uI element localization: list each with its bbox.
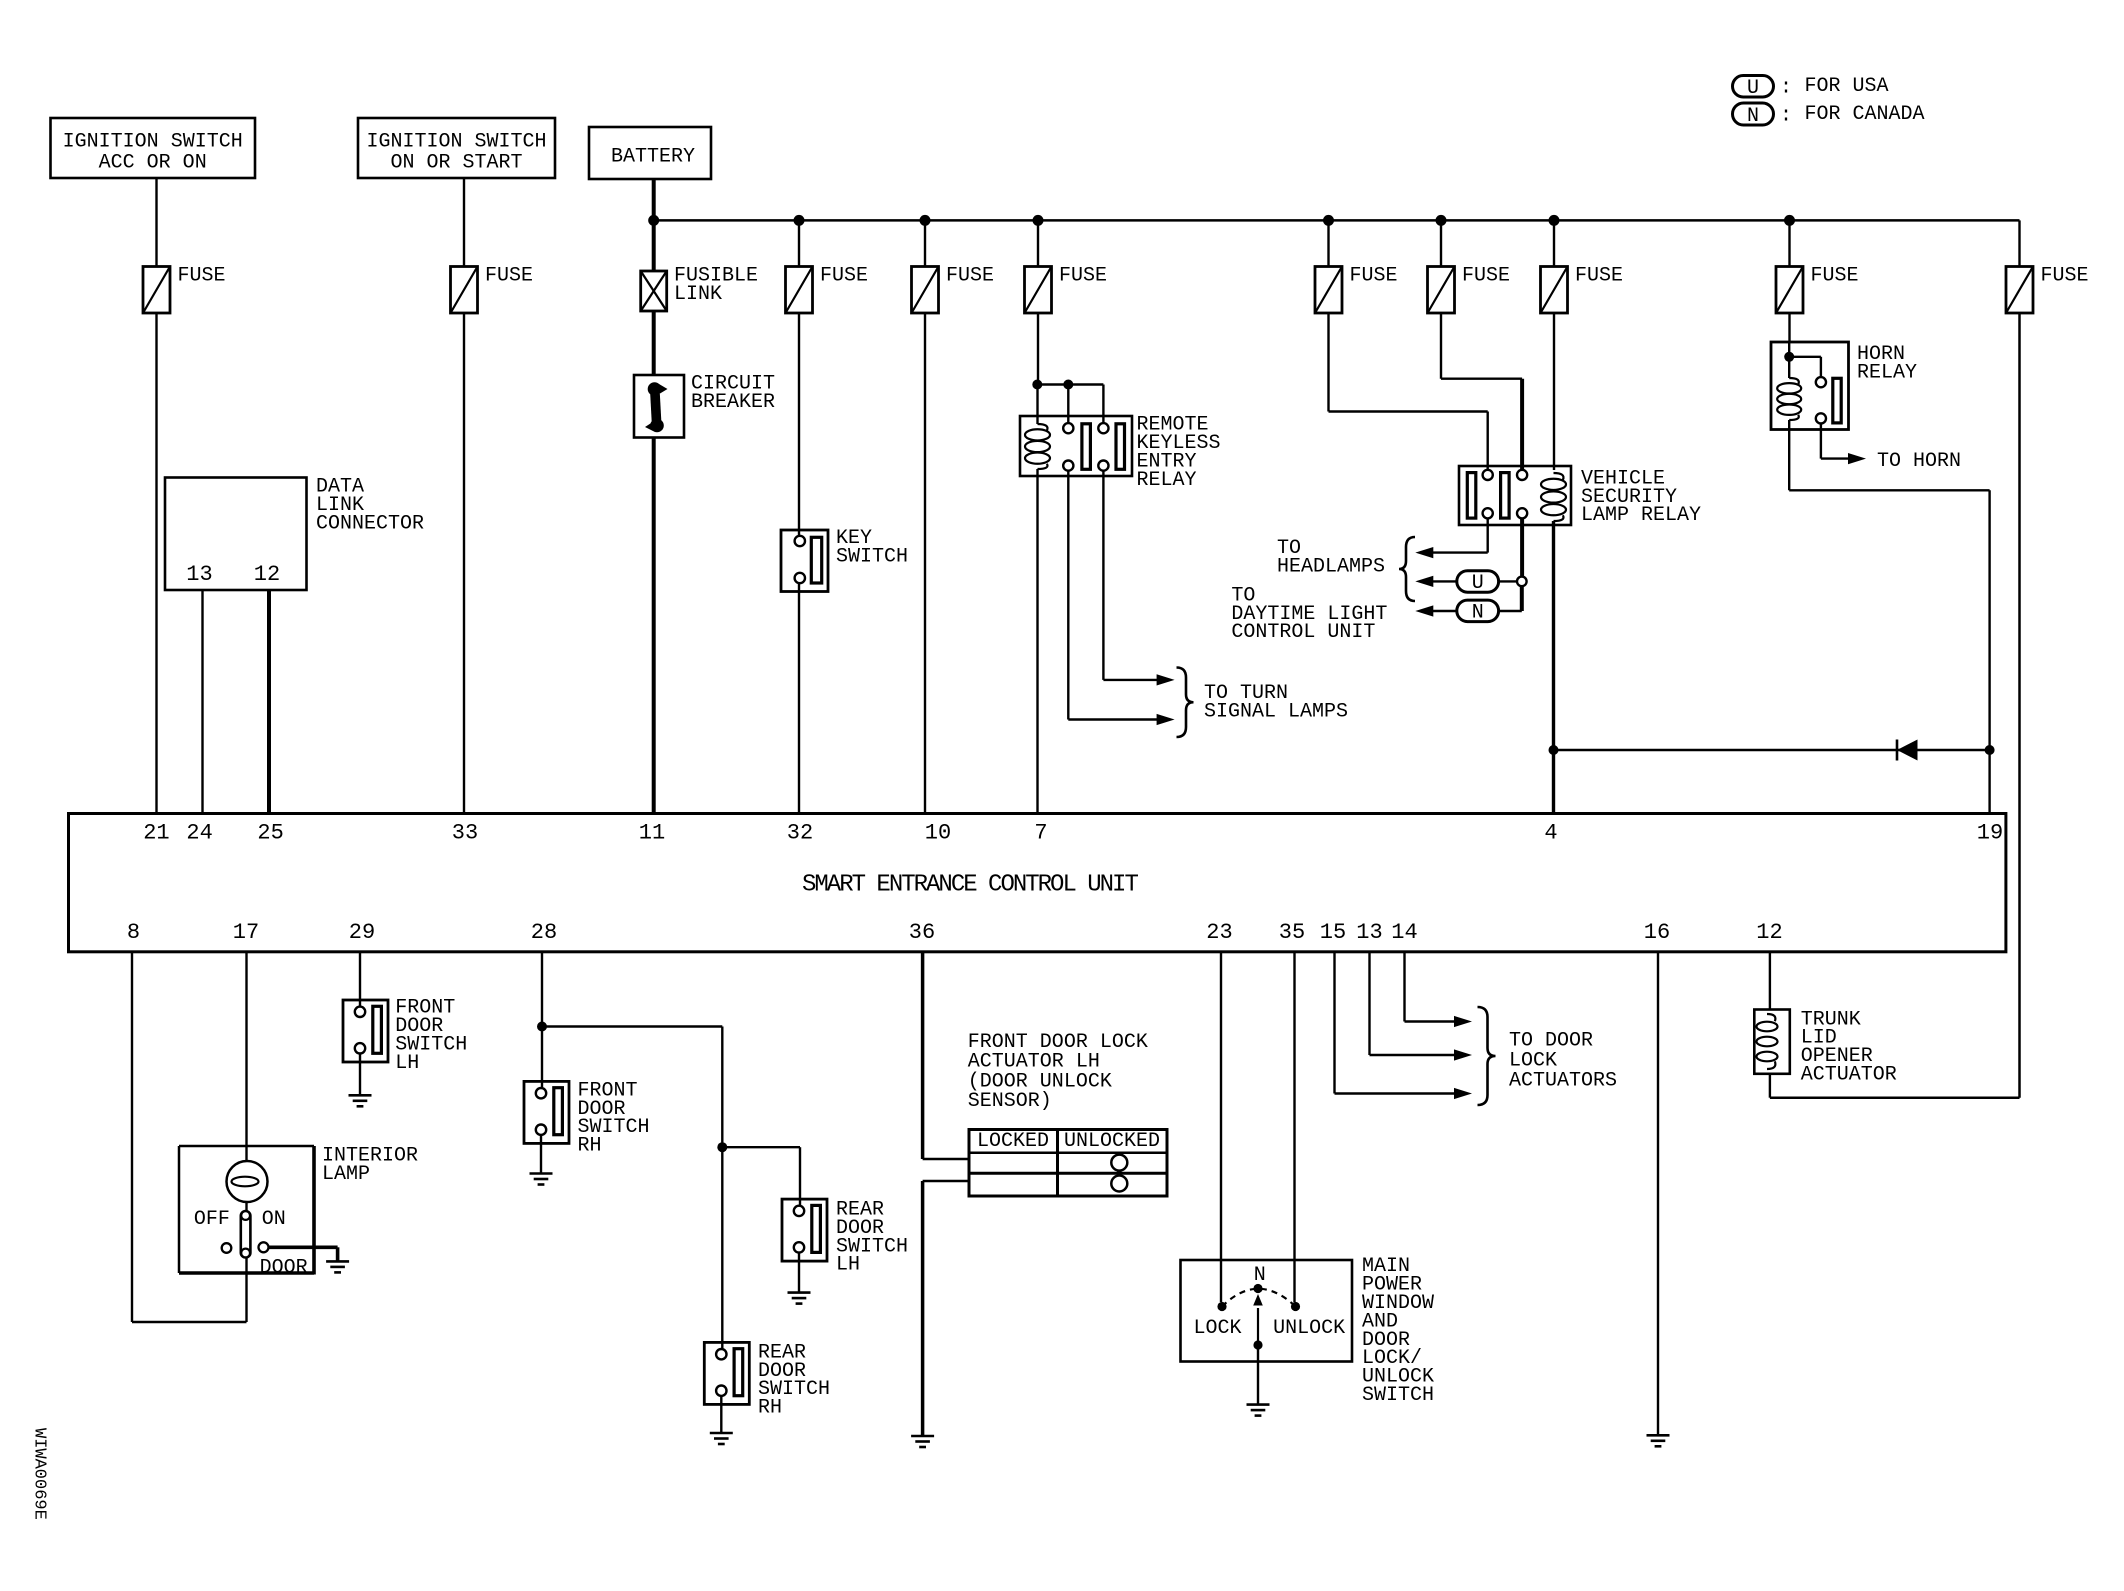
svg-text:4: 4 [1544, 821, 1557, 846]
svg-text:OFF: OFF [194, 1208, 230, 1231]
svg-text:29: 29 [349, 920, 375, 945]
svg-text:CONTROL UNIT: CONTROL UNIT [1231, 621, 1375, 644]
svg-text:BATTERY: BATTERY [611, 146, 695, 169]
svg-text:LAMP RELAY: LAMP RELAY [1581, 504, 1701, 527]
svg-text:SENSOR): SENSOR) [968, 1090, 1052, 1113]
svg-text:7: 7 [1034, 821, 1047, 846]
svg-text::: : [1780, 77, 1792, 100]
svg-text:N: N [1747, 105, 1759, 128]
svg-text::: : [1780, 105, 1792, 128]
svg-text:LINK: LINK [674, 283, 722, 306]
svg-text:SIGNAL LAMPS: SIGNAL LAMPS [1204, 700, 1348, 723]
svg-text:21: 21 [143, 821, 169, 846]
svg-text:TO HORN: TO HORN [1877, 450, 1961, 473]
svg-text:LOCK: LOCK [1194, 1317, 1242, 1340]
svg-text:FUSE: FUSE [946, 265, 994, 288]
svg-text:10: 10 [925, 821, 951, 846]
svg-text:19: 19 [1977, 821, 2003, 846]
svg-text:LAMP: LAMP [322, 1163, 370, 1186]
svg-text:24: 24 [186, 821, 212, 846]
svg-text:FOR USA: FOR USA [1805, 75, 1889, 98]
svg-text:IGNITION SWITCH: IGNITION SWITCH [366, 131, 546, 154]
svg-text:N: N [1254, 1264, 1266, 1287]
svg-text:UNLOCKED: UNLOCKED [1064, 1130, 1160, 1153]
svg-text:U: U [1747, 77, 1759, 100]
svg-text:33: 33 [452, 821, 478, 846]
svg-text:N: N [1472, 602, 1484, 625]
svg-text:28: 28 [531, 920, 557, 945]
svg-text:SMART ENTRANCE CONTROL UNIT: SMART ENTRANCE CONTROL UNIT [802, 872, 1138, 899]
svg-text:ACTUATORS: ACTUATORS [1509, 1069, 1617, 1092]
svg-text:FUSE: FUSE [1059, 265, 1107, 288]
svg-text:FUSE: FUSE [178, 265, 226, 288]
svg-text:SWITCH: SWITCH [1362, 1384, 1434, 1407]
svg-text:13: 13 [1356, 920, 1382, 945]
svg-text:RELAY: RELAY [1857, 362, 1917, 385]
svg-text:U: U [1472, 572, 1484, 595]
svg-text:SWITCH: SWITCH [836, 545, 908, 568]
svg-text:32: 32 [787, 821, 813, 846]
svg-text:ON: ON [262, 1208, 286, 1231]
svg-text:FUSE: FUSE [2041, 265, 2089, 288]
svg-text:CONNECTOR: CONNECTOR [316, 512, 424, 535]
svg-text:FUSE: FUSE [485, 265, 533, 288]
svg-text:RH: RH [578, 1135, 602, 1158]
svg-text:12: 12 [254, 562, 280, 587]
svg-text:36: 36 [909, 920, 935, 945]
svg-text:8: 8 [127, 920, 140, 945]
svg-text:FUSE: FUSE [820, 265, 868, 288]
svg-text:25: 25 [257, 821, 283, 846]
svg-text:23: 23 [1206, 920, 1232, 945]
svg-text:12: 12 [1756, 920, 1782, 945]
svg-text:11: 11 [639, 821, 665, 846]
svg-text:UNLOCK: UNLOCK [1273, 1317, 1345, 1340]
svg-text:13: 13 [186, 562, 212, 587]
svg-text:LH: LH [836, 1254, 860, 1277]
svg-text:FUSE: FUSE [1350, 265, 1398, 288]
svg-text:17: 17 [233, 920, 259, 945]
svg-text:WIWA0069E: WIWA0069E [30, 1428, 49, 1520]
svg-text:LH: LH [395, 1052, 419, 1075]
svg-text:DOOR: DOOR [260, 1257, 308, 1280]
svg-text:FUSE: FUSE [1575, 265, 1623, 288]
svg-text:ACC OR ON: ACC OR ON [99, 152, 207, 175]
svg-text:FUSE: FUSE [1462, 265, 1510, 288]
svg-text:IGNITION SWITCH: IGNITION SWITCH [63, 131, 243, 154]
svg-text:15: 15 [1320, 920, 1346, 945]
svg-text:RH: RH [758, 1397, 782, 1420]
svg-text:LOCKED: LOCKED [977, 1130, 1049, 1153]
svg-text:ACTUATOR: ACTUATOR [1801, 1064, 1897, 1087]
svg-text:FOR CANADA: FOR CANADA [1805, 103, 1925, 126]
svg-text:ON OR START: ON OR START [390, 152, 522, 175]
svg-text:16: 16 [1644, 920, 1670, 945]
svg-text:HEADLAMPS: HEADLAMPS [1277, 555, 1385, 578]
svg-text:35: 35 [1279, 920, 1305, 945]
svg-text:BREAKER: BREAKER [691, 391, 775, 414]
svg-text:14: 14 [1391, 920, 1417, 945]
svg-text:RELAY: RELAY [1137, 469, 1197, 492]
svg-text:FUSE: FUSE [1811, 265, 1859, 288]
